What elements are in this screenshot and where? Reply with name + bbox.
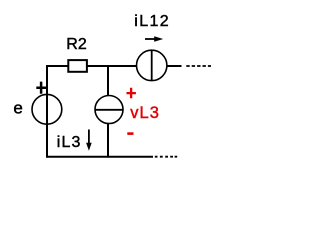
current source L3 [95,96,123,124]
wire middle vertical upper [107,65,109,96]
resistor R2 [68,60,87,72]
svg-text:iL12: iL12 [134,13,170,30]
current source L3 bar [95,109,123,111]
polarity plus of vL3 [127,88,136,99]
svg-text:R2: R2 [66,36,87,53]
current source L12 bar [151,50,153,81]
wire top dashed segment [186,65,211,67]
wire bottom dashed segment [155,156,177,158]
arrow iL3 [86,130,92,151]
voltage source e [32,94,62,124]
wire middle vertical lower [107,123,109,158]
wire top-middle segment [87,65,136,67]
svg-text:e: e [13,98,22,117]
wire top-left segment [46,65,68,67]
wire left vertical [46,65,48,158]
wire bottom segment [46,156,153,158]
polarity minus of vL3 [127,132,133,135]
polarity plus of e [36,82,46,94]
wire top-right segment [167,65,182,67]
svg-text:iL3: iL3 [57,134,82,151]
current source L12 [137,50,167,80]
svg-text:vL3: vL3 [130,104,160,122]
arrow iL12 [145,36,163,42]
